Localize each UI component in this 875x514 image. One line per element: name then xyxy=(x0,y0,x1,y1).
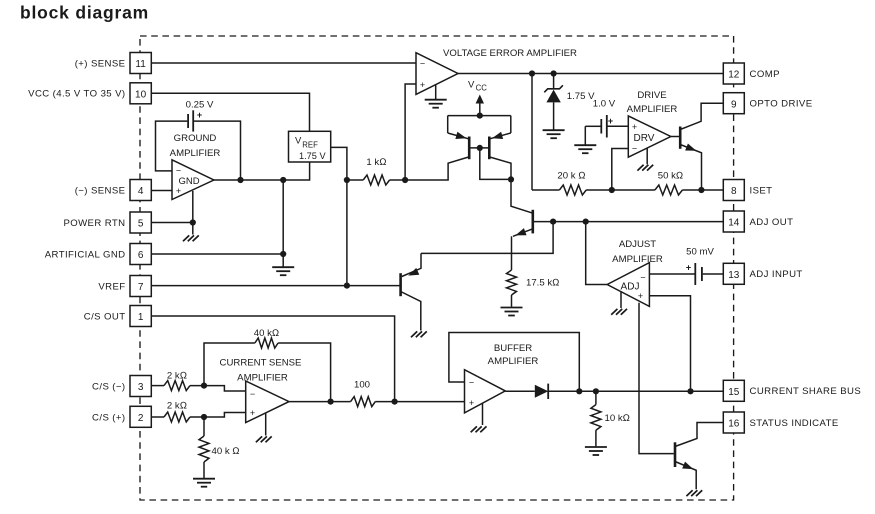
wire pin2 to 2k xyxy=(151,416,164,418)
svg-text:POWER RTN: POWER RTN xyxy=(63,218,125,229)
mirror right emitter drop xyxy=(510,116,512,133)
wire 2k to U5 noninverting input xyxy=(190,413,246,418)
CS feedback 40k left leg xyxy=(204,343,255,386)
svg-text:14: 14 xyxy=(728,218,740,229)
diode D1 xyxy=(535,385,548,398)
wire pin3 to 2k xyxy=(151,385,164,387)
Q1 emitter arrow xyxy=(455,132,467,142)
svg-text:−: − xyxy=(250,389,255,399)
svg-text:+: + xyxy=(686,263,691,273)
resistor 2 k-ohm upper xyxy=(164,381,190,391)
svg-text:block diagram: block diagram xyxy=(20,3,149,23)
node share bus ADJ tap xyxy=(687,388,693,394)
svg-text:+: + xyxy=(638,291,643,301)
svg-text:20 k Ω: 20 k Ω xyxy=(557,171,585,182)
svg-text:VCC (4.5 V TO 35 V): VCC (4.5 V TO 35 V) xyxy=(28,89,125,100)
wire 1.0V cap ground stem xyxy=(584,126,586,144)
U4 ground stem xyxy=(620,292,622,308)
Q3 emitter arrow xyxy=(685,143,698,154)
op-amp U1 voltage error amplifier triangle xyxy=(416,53,458,95)
pin 10 box xyxy=(130,83,151,104)
svg-text:40 kΩ: 40 kΩ xyxy=(254,328,280,339)
wire pin1 C/S OUT to output node xyxy=(151,316,395,402)
pin 7 box xyxy=(130,276,151,297)
svg-text:AMPLIFIER: AMPLIFIER xyxy=(488,356,539,367)
pin 11 box xyxy=(130,53,151,74)
transistor Q5 bar xyxy=(399,273,402,296)
U6 feedback loop xyxy=(449,333,579,392)
U2 feedback loop left+top xyxy=(156,121,188,171)
svg-text:DRV: DRV xyxy=(634,133,655,144)
node VCC arrow xyxy=(479,101,481,116)
node POWER RTN junction xyxy=(190,219,196,225)
svg-text:V: V xyxy=(295,136,302,147)
wire pin5 to U2 ground stem xyxy=(151,222,193,224)
svg-text:100: 100 xyxy=(354,380,370,391)
node zener tap xyxy=(551,70,557,76)
svg-text:15: 15 xyxy=(728,387,740,398)
svg-text:AMPLIFIER: AMPLIFIER xyxy=(237,372,288,383)
wire 100 to U6 xyxy=(375,401,464,403)
svg-text:C/S OUT: C/S OUT xyxy=(84,311,126,322)
svg-text:ARTIFICIAL GND: ARTIFICIAL GND xyxy=(45,249,126,260)
svg-text:+: + xyxy=(469,398,474,408)
resistor 1 k-ohm xyxy=(363,175,389,185)
U4 bottom output to Q7 base xyxy=(639,303,674,454)
svg-text:+: + xyxy=(197,110,202,120)
svg-text:VREF: VREF xyxy=(98,281,125,292)
wire 2k to U5 inverting input (jog) xyxy=(190,386,246,391)
node buffer feedback tap xyxy=(576,388,582,394)
svg-text:−: − xyxy=(469,377,474,387)
wire ISET rail segment 3 to pin8 xyxy=(682,189,723,191)
svg-text:V: V xyxy=(468,80,475,91)
svg-text:+: + xyxy=(632,122,637,132)
svg-text:−: − xyxy=(640,273,645,283)
node A 1k right xyxy=(402,177,408,183)
op-amp U4 adjust amplifier triangle (points left) xyxy=(607,263,649,307)
node VCC rail xyxy=(477,113,483,119)
U5 ground stem xyxy=(265,413,267,436)
svg-text:C/S (+): C/S (+) xyxy=(92,412,125,423)
op-amp U2 ground amplifier triangle xyxy=(172,160,214,200)
svg-text:AMPLIFIER: AMPLIFIER xyxy=(612,254,663,265)
wire 1k to node A xyxy=(390,179,406,181)
transistor Q7 bar xyxy=(674,442,677,467)
wire ground-amp output rail xyxy=(214,162,310,180)
VREF block xyxy=(289,131,331,162)
ground below 40k xyxy=(193,478,215,480)
resistor 10 k-ohm xyxy=(595,391,597,404)
svg-text:1.75 V: 1.75 V xyxy=(299,151,326,161)
resistor 17.5 k-ohm xyxy=(507,270,517,295)
pin 6 box xyxy=(130,244,151,265)
pin 15 box xyxy=(723,380,744,401)
Q2 collector xyxy=(490,157,511,179)
svg-text:2: 2 xyxy=(138,413,144,424)
svg-text:0.25 V: 0.25 V xyxy=(186,99,214,110)
wire U1 output to pin12 (COMP) xyxy=(458,73,723,75)
ground below U6 (hatched) xyxy=(480,426,486,432)
wire pin11 to U1 inverting input xyxy=(151,62,416,64)
op-amp U6 buffer amplifier triangle xyxy=(465,370,506,413)
emitter rail y254 from Q5 to Q4 base drop xyxy=(421,222,553,254)
node Q4 base rail tap xyxy=(550,219,556,225)
resistor 50 k-ohm xyxy=(655,185,683,195)
Q7 collector to pin16 STATUS INDICATE xyxy=(675,423,723,447)
ground below Q7 (hatched) xyxy=(696,490,702,496)
Q7 emitter arrow xyxy=(682,462,695,473)
op-amp U3 drive amplifier triangle xyxy=(628,116,671,157)
wire pin7 VREF rail xyxy=(151,285,347,287)
svg-text:OPTO DRIVE: OPTO DRIVE xyxy=(750,99,813,110)
Q1 emitter diagonal xyxy=(448,133,469,139)
svg-text:AMPLIFIER: AMPLIFIER xyxy=(170,148,221,159)
wire 50mV cap to pin13 xyxy=(703,273,724,275)
U6 output to diode xyxy=(505,390,535,392)
ground below 10k xyxy=(585,446,607,448)
node C/S minus xyxy=(201,383,207,389)
svg-text:ADJUST: ADJUST xyxy=(619,239,656,250)
U2 feedback right side down to output rail xyxy=(194,121,241,180)
artificial ground vertical xyxy=(282,180,284,267)
svg-text:CURRENT SENSE: CURRENT SENSE xyxy=(220,357,302,368)
resistor 20 k-ohm xyxy=(559,185,586,195)
capacitor 0.25 V xyxy=(187,114,189,128)
svg-text:16: 16 xyxy=(728,419,740,430)
svg-text:−: − xyxy=(420,59,425,69)
pin 4 box xyxy=(130,180,151,201)
svg-text:CC: CC xyxy=(476,83,488,92)
CS feedback 40k right leg xyxy=(278,343,331,402)
pin 16 box xyxy=(723,412,744,433)
transistor Q3 opto base bar xyxy=(679,127,682,149)
svg-text:50 mV: 50 mV xyxy=(686,247,714,258)
resistor 40 k-ohm to ground leg xyxy=(203,417,205,436)
node C/S plus xyxy=(201,414,207,420)
node C/S OUT junction xyxy=(392,399,398,405)
wire U1 noninverting input to node A xyxy=(405,84,416,180)
svg-text:(+) SENSE: (+) SENSE xyxy=(75,58,126,69)
Q4 emitter arrow xyxy=(514,228,526,239)
svg-text:1.75 V: 1.75 V xyxy=(567,91,595,102)
wire VREF right to pin7 rail xyxy=(331,147,347,285)
wire zener to ground xyxy=(553,102,555,129)
svg-text:4: 4 xyxy=(138,186,144,197)
node DRV inverting tap xyxy=(609,187,615,193)
Q3 collector to pin9 (OPTO DRIVE) xyxy=(680,103,723,129)
wire pin4 to U2 noninverting input xyxy=(151,190,172,192)
U5 output rail xyxy=(289,401,351,403)
ground below U2 (hatched) xyxy=(193,235,199,241)
wire diode to pin15 CURRENT SHARE BUS xyxy=(547,390,723,392)
svg-text:50 kΩ: 50 kΩ xyxy=(658,170,684,181)
svg-text:DRIVE: DRIVE xyxy=(637,90,666,101)
node ADJ OUT tap xyxy=(583,219,589,225)
node artificial gnd junction xyxy=(280,251,286,257)
zener diode 1.75 V cathode bar xyxy=(544,85,563,92)
wire pin10 to VREF block top xyxy=(151,93,310,131)
svg-text:13: 13 xyxy=(728,270,740,281)
wire zener top xyxy=(553,74,555,90)
Q2 emitter arrow xyxy=(491,132,503,142)
resistor 2 k-ohm lower xyxy=(164,412,190,422)
mirror base tie xyxy=(469,147,489,149)
pin 14 box xyxy=(723,211,744,232)
ground below artificial gnd node xyxy=(272,266,294,268)
ground below U3 (hatched) xyxy=(647,165,653,171)
transistor Q2 bar (mirror right) xyxy=(488,137,491,160)
U4 output to ADJ OUT node xyxy=(586,222,608,285)
svg-text:ADJ INPUT: ADJ INPUT xyxy=(750,269,803,280)
svg-text:9: 9 xyxy=(731,99,737,110)
Q1 collector xyxy=(405,157,469,180)
Q7 emitter xyxy=(675,462,696,490)
op-amp U5 current sense amplifier triangle xyxy=(246,381,289,423)
node VREF rail junction xyxy=(344,283,350,289)
U6 ground stem xyxy=(482,403,484,425)
svg-text:(−) SENSE: (−) SENSE xyxy=(75,185,126,196)
node CS feedback tap xyxy=(328,399,334,405)
capacitor 1.0 V xyxy=(600,119,602,134)
resistor 100 xyxy=(351,397,376,407)
Q5 emitter diagonal xyxy=(402,253,421,276)
ground below U5 (hatched) xyxy=(266,436,272,442)
svg-text:2 kΩ: 2 kΩ xyxy=(167,400,187,411)
node ISET emitter junction xyxy=(698,187,704,193)
Q4 base line to pin14 (ADJ OUT) xyxy=(533,221,724,223)
ground below Q5 (hatched) xyxy=(421,331,427,337)
wire U3 output to Q3 base xyxy=(671,136,680,138)
wire ISET rail segment 2 xyxy=(586,189,655,191)
resistor 40 k-ohm feedback xyxy=(255,338,278,348)
mirror base down to node B xyxy=(480,148,511,180)
svg-text:GND: GND xyxy=(178,176,199,187)
current mirror top rail xyxy=(448,115,511,117)
node 10k tap xyxy=(593,388,599,394)
node COMP-20k junction xyxy=(529,70,535,76)
node gnd-amp feedback tap xyxy=(237,177,243,183)
mirror left emitter drop xyxy=(447,116,449,133)
svg-text:ADJ: ADJ xyxy=(621,282,640,293)
Q5 emitter arrow xyxy=(407,268,420,279)
svg-text:8: 8 xyxy=(731,186,737,197)
U3 ground stem xyxy=(646,148,648,164)
pin 13 box xyxy=(723,263,744,284)
Q3 emitter xyxy=(680,145,701,191)
svg-text:11: 11 xyxy=(135,59,146,70)
svg-text:+: + xyxy=(420,80,425,90)
Q2 emitter diagonal xyxy=(490,133,511,139)
node artificial gnd tap xyxy=(280,177,286,183)
U2 ground stem xyxy=(192,191,194,235)
svg-text:C/S (−): C/S (−) xyxy=(92,381,125,392)
pin 9 box xyxy=(723,93,744,114)
svg-text:1.0 V: 1.0 V xyxy=(593,99,616,110)
svg-text:GROUND: GROUND xyxy=(174,133,217,144)
svg-text:1: 1 xyxy=(138,312,144,323)
svg-text:7: 7 xyxy=(138,282,144,293)
svg-text:40 k Ω: 40 k Ω xyxy=(212,446,240,457)
svg-text:REF: REF xyxy=(302,140,318,149)
Q4 collector from node B xyxy=(511,179,533,213)
transistor Q1 bar (mirror left) xyxy=(468,137,471,160)
pin 5 box xyxy=(130,212,151,233)
svg-text:+: + xyxy=(176,186,181,196)
svg-text:−: − xyxy=(176,166,181,176)
node B mirror output xyxy=(508,176,514,182)
pin 2 box xyxy=(130,406,151,427)
Q5 base line from VREF rail xyxy=(347,285,401,287)
pin 3 box xyxy=(130,376,151,397)
wire VREF node to 1k xyxy=(347,179,363,181)
IC boundary (dashed box) xyxy=(140,36,734,500)
svg-text:10 kΩ: 10 kΩ xyxy=(605,413,631,424)
U1 ground stem xyxy=(435,85,437,100)
svg-text:12: 12 xyxy=(728,70,740,81)
svg-text:ADJ OUT: ADJ OUT xyxy=(750,217,794,228)
wire 1.0V cap to U3 noninverting input xyxy=(608,125,629,127)
capacitor 50 mV xyxy=(694,263,696,285)
wire pin6 artificial ground rail xyxy=(151,253,283,255)
ground below U1 xyxy=(425,99,447,101)
Q4 emitter down through rail to 17.5k xyxy=(511,236,513,270)
svg-text:1 kΩ: 1 kΩ xyxy=(366,157,386,168)
ground below 17.5k xyxy=(501,307,523,309)
transistor Q4 bar xyxy=(531,210,534,234)
svg-text:17.5 kΩ: 17.5 kΩ xyxy=(526,278,560,289)
Q5 collector xyxy=(401,292,421,331)
zener diode 1.75 V body xyxy=(546,90,560,103)
svg-text:COMP: COMP xyxy=(750,69,780,80)
svg-text:6: 6 xyxy=(138,250,144,261)
svg-text:−: − xyxy=(632,144,637,154)
ground below zener xyxy=(543,129,565,131)
svg-text:5: 5 xyxy=(138,219,144,230)
wire U3 inverting input down to ISET node xyxy=(612,149,629,191)
ground below U4 (hatched) xyxy=(621,309,627,315)
wire 17.5k to ground xyxy=(511,295,513,307)
wire ISET rail segment 1 xyxy=(532,189,559,191)
U4 inverting input wire to 50mV cap xyxy=(649,273,694,275)
svg-text:+: + xyxy=(608,116,613,126)
svg-text:ISET: ISET xyxy=(750,185,773,196)
pin 8 box xyxy=(723,180,744,201)
svg-text:VOLTAGE ERROR AMPLIFIER: VOLTAGE ERROR AMPLIFIER xyxy=(443,48,577,59)
svg-text:+: + xyxy=(250,408,255,418)
svg-text:2 kΩ: 2 kΩ xyxy=(167,370,187,381)
svg-text:AMPLIFIER: AMPLIFIER xyxy=(627,104,678,115)
svg-text:10: 10 xyxy=(135,90,147,101)
pin 1 box xyxy=(130,306,151,327)
U4 noninverting input to share bus xyxy=(649,296,690,392)
Q4 emitter xyxy=(513,229,533,237)
node mirror base xyxy=(477,145,483,151)
wire ground to 1.0V cap left plate xyxy=(585,125,600,127)
node VREF-1k tap xyxy=(344,177,350,183)
svg-text:BUFFER: BUFFER xyxy=(494,343,532,354)
svg-text:3: 3 xyxy=(138,382,144,393)
svg-text:STATUS INDICATE: STATUS INDICATE xyxy=(750,418,839,429)
svg-text:CURRENT SHARE BUS: CURRENT SHARE BUS xyxy=(750,386,862,397)
wire COMP node down to 20k xyxy=(531,74,533,191)
pin 12 box xyxy=(723,63,744,84)
